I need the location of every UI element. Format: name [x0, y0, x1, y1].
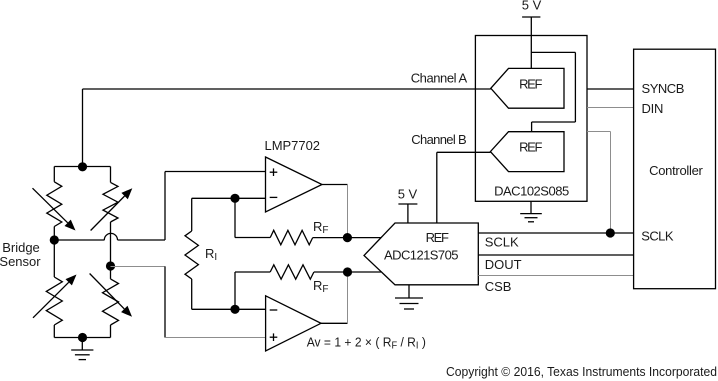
op-amp U1B (bottom half LMP7702) [266, 296, 321, 351]
wire: DAC SCLK down to shared SCLK line [587, 131, 611, 133]
U1A plus pin mark [270, 171, 278, 173]
wire: RI top to U1A - input [192, 197, 266, 199]
controller block [634, 49, 716, 289]
wire: bridge top edge [54, 166, 110, 168]
wire: DAC DIN to controller [587, 107, 634, 109]
svg-text:DAC102S085: DAC102S085 [494, 184, 569, 199]
svg-text:Copyright © 2016, Texas Instru: Copyright © 2016, Texas Instruments Inco… [446, 364, 717, 379]
svg-text:Controller: Controller [649, 163, 703, 178]
svg-text:Sensor: Sensor [0, 254, 41, 269]
node: bridge bottom junction [78, 333, 87, 342]
svg-text:DOUT: DOUT [485, 257, 522, 272]
wire: U1A output [322, 184, 348, 186]
node: RF2 / U1B output junction [343, 267, 352, 276]
wire: DAC SYNCB to controller [587, 88, 634, 90]
wire: ADC SCLK to controller [478, 232, 633, 234]
wire: bridge left-mid to op-amp U1A + input (with hop) [54, 239, 104, 241]
resistor RF2 [270, 265, 314, 279]
internal supply routing to REF B [531, 51, 575, 53]
node: U1B inverting input junction [230, 305, 239, 314]
node: SCLK junction [606, 228, 615, 237]
arrow across upper-right resistor [91, 196, 125, 231]
wire: Channel A from bridge top to DAC REF A [83, 88, 491, 90]
resistor bridge lower-right (variable) [110, 266, 112, 279]
svg-text:Av = 1 + 2 × ( RF / RI ): Av = 1 + 2 × ( RF / RI ) [307, 335, 426, 352]
svg-text:SCLK: SCLK [485, 234, 519, 249]
svg-text:CSB: CSB [485, 279, 512, 294]
node: RF1 / U1A output junction [343, 233, 352, 242]
resistor RF1 [270, 230, 313, 245]
U1A minus pin mark [270, 196, 278, 198]
ground below bridge [81, 338, 83, 351]
wire: U1B output [321, 322, 348, 324]
svg-text:SYNCB: SYNCB [642, 81, 685, 96]
svg-text:ADC121S705: ADC121S705 [384, 248, 459, 263]
DAC REF block B [490, 132, 564, 172]
svg-text:SCLK: SCLK [641, 228, 674, 243]
node: bridge right mid [106, 261, 115, 270]
wire: to ADC +IN [347, 237, 381, 239]
wire: U1B - node up to RF2 [234, 272, 236, 309]
svg-text:Channel B: Channel B [411, 132, 466, 147]
resistor bridge lower-left (variable) [53, 240, 55, 277]
resistor bridge upper-right (variable) [110, 167, 112, 183]
svg-text:5 V: 5 V [522, 0, 542, 13]
U1B minus pin mark [270, 309, 278, 311]
DAC REF block A [491, 68, 564, 108]
resistor RI [191, 198, 193, 231]
node: U1A inverting input junction [230, 194, 239, 203]
wire: ADC DOUT to controller [478, 254, 633, 256]
wire: bridge right-mid to op-amp U1B + input [111, 266, 166, 268]
arrow across upper-left resistor [33, 188, 68, 223]
ground below ADC [408, 285, 410, 298]
svg-text:DIN: DIN [642, 101, 664, 116]
svg-text:LMP7702: LMP7702 [265, 138, 321, 153]
wire: Channel B to ADC REF [437, 151, 491, 153]
svg-text:Channel A: Channel A [411, 70, 468, 85]
wire: U1A - node down to RF1 [234, 198, 236, 237]
node: bridge left mid [50, 235, 59, 244]
wire: RI bottom to U1B - input [192, 308, 266, 310]
svg-text:5 V: 5 V [398, 187, 418, 202]
arrow across lower-left resistor [33, 282, 69, 318]
wire: bridge bottom edge [54, 337, 110, 339]
svg-text:REF: REF [426, 230, 449, 245]
op-amp U1A (top half LMP7702) [266, 157, 323, 212]
wire: to ADC -IN [348, 271, 382, 273]
wire: Channel A down to bridge top [82, 89, 84, 167]
ADC U2 ADC121S705 body [364, 223, 478, 285]
svg-text:REF: REF [519, 77, 542, 92]
resistor bridge upper-left (variable) [53, 167, 55, 182]
ground below DAC [530, 201, 532, 213]
DAC U3 DAC102S085 body [475, 36, 587, 202]
wire: ADC CSB to controller [478, 275, 633, 277]
U1B plus pin mark [270, 336, 278, 338]
arrow across lower-right resistor [90, 274, 125, 309]
svg-text:Bridge: Bridge [2, 240, 40, 255]
svg-text:REF: REF [519, 140, 542, 155]
node: bridge top junction [78, 162, 87, 171]
